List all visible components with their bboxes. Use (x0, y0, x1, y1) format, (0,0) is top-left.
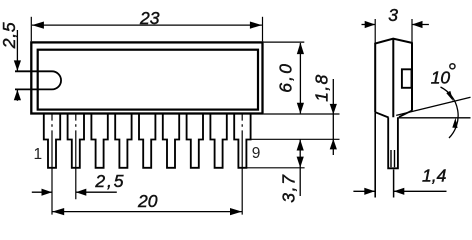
dimension 1,8: dimension line with outside arrows (330, 79, 337, 155)
pin 2 (68, 115, 84, 168)
pin 3 (91, 115, 107, 168)
index tab (rounded key) on left side (15, 71, 61, 89)
dimension 6,0: dimension line with arrows (297, 43, 304, 114)
dimension 1,8: extension lines (body bottom and pin step) (251, 114, 340, 139)
side view: ejector mark rectangle (402, 69, 412, 88)
svg-text:3: 3 (388, 5, 398, 25)
side view: parting center line (392, 39, 394, 118)
dimension 1,4: dimension line with outside arrows (353, 188, 446, 195)
svg-text:2,5: 2,5 (94, 171, 125, 191)
pin 5 (139, 115, 155, 168)
pin 6 (163, 115, 179, 168)
svg-text:20: 20 (137, 191, 158, 211)
dimension 20: dimension line with arrows (52, 208, 242, 215)
svg-text:1,4: 1,4 (422, 166, 447, 186)
svg-text:23: 23 (139, 8, 160, 28)
pin 8 (210, 115, 226, 168)
angle 10 deg: upper arrowhead (446, 91, 453, 101)
pin 9 center line (241, 114, 243, 215)
dimension 2,5 (tab height): dimension line and outside arrows (14, 30, 21, 101)
side view: bottom left chamfer (375, 112, 388, 117)
dimension 3,7: extension line (pin tips) (246, 167, 304, 169)
angle 10 deg: lower arrowhead (452, 118, 457, 128)
pin 4 (115, 115, 131, 168)
dimension 3 (side): dimension line with outside arrows (362, 21, 429, 28)
svg-text:2,5: 2,5 (0, 22, 19, 50)
pin 2 center line (75, 114, 77, 200)
svg-text:3,7: 3,7 (278, 173, 298, 202)
pin 1 center line (51, 114, 53, 215)
dimension 1,4: extension lines below side pin (393, 170, 395, 198)
pin 1 (44, 115, 60, 168)
svg-text:10: 10 (431, 68, 451, 88)
dimension 23: extension lines (31, 17, 262, 42)
pin 7 (187, 115, 203, 168)
package body inner outline (38, 50, 258, 110)
angle 10 deg: horizontal reference line (399, 117, 471, 119)
side view: bottom right chamfer (399, 111, 412, 118)
side view: pin outline (388, 117, 398, 168)
dimension 3 (side): extension lines (375, 19, 412, 44)
dimension 23: dimension line with arrows (32, 22, 262, 29)
svg-text:1,8: 1,8 (311, 73, 331, 101)
dimension 3,7: dimension line with arrows (297, 139, 304, 196)
angle 10 deg: dimension arc (441, 87, 459, 138)
side view: roof (gable top) (375, 39, 413, 44)
angle 10 deg: degree symbol (450, 64, 455, 69)
package body outer outline (31, 42, 262, 113)
dimension 6,0: extension line top right (264, 41, 305, 43)
pin 9 (234, 115, 250, 168)
side view: body right edge (411, 43, 413, 111)
side view: pin narrow core lines (391, 150, 395, 167)
svg-text:1: 1 (34, 146, 43, 163)
dimension 2,5 (pin pitch): dimension line with outside arrows (32, 189, 117, 196)
side view: body left edge (374, 43, 376, 112)
svg-text:6,0: 6,0 (275, 62, 295, 93)
angle 10 deg: sloped line (396, 97, 470, 115)
svg-text:9: 9 (252, 145, 261, 162)
